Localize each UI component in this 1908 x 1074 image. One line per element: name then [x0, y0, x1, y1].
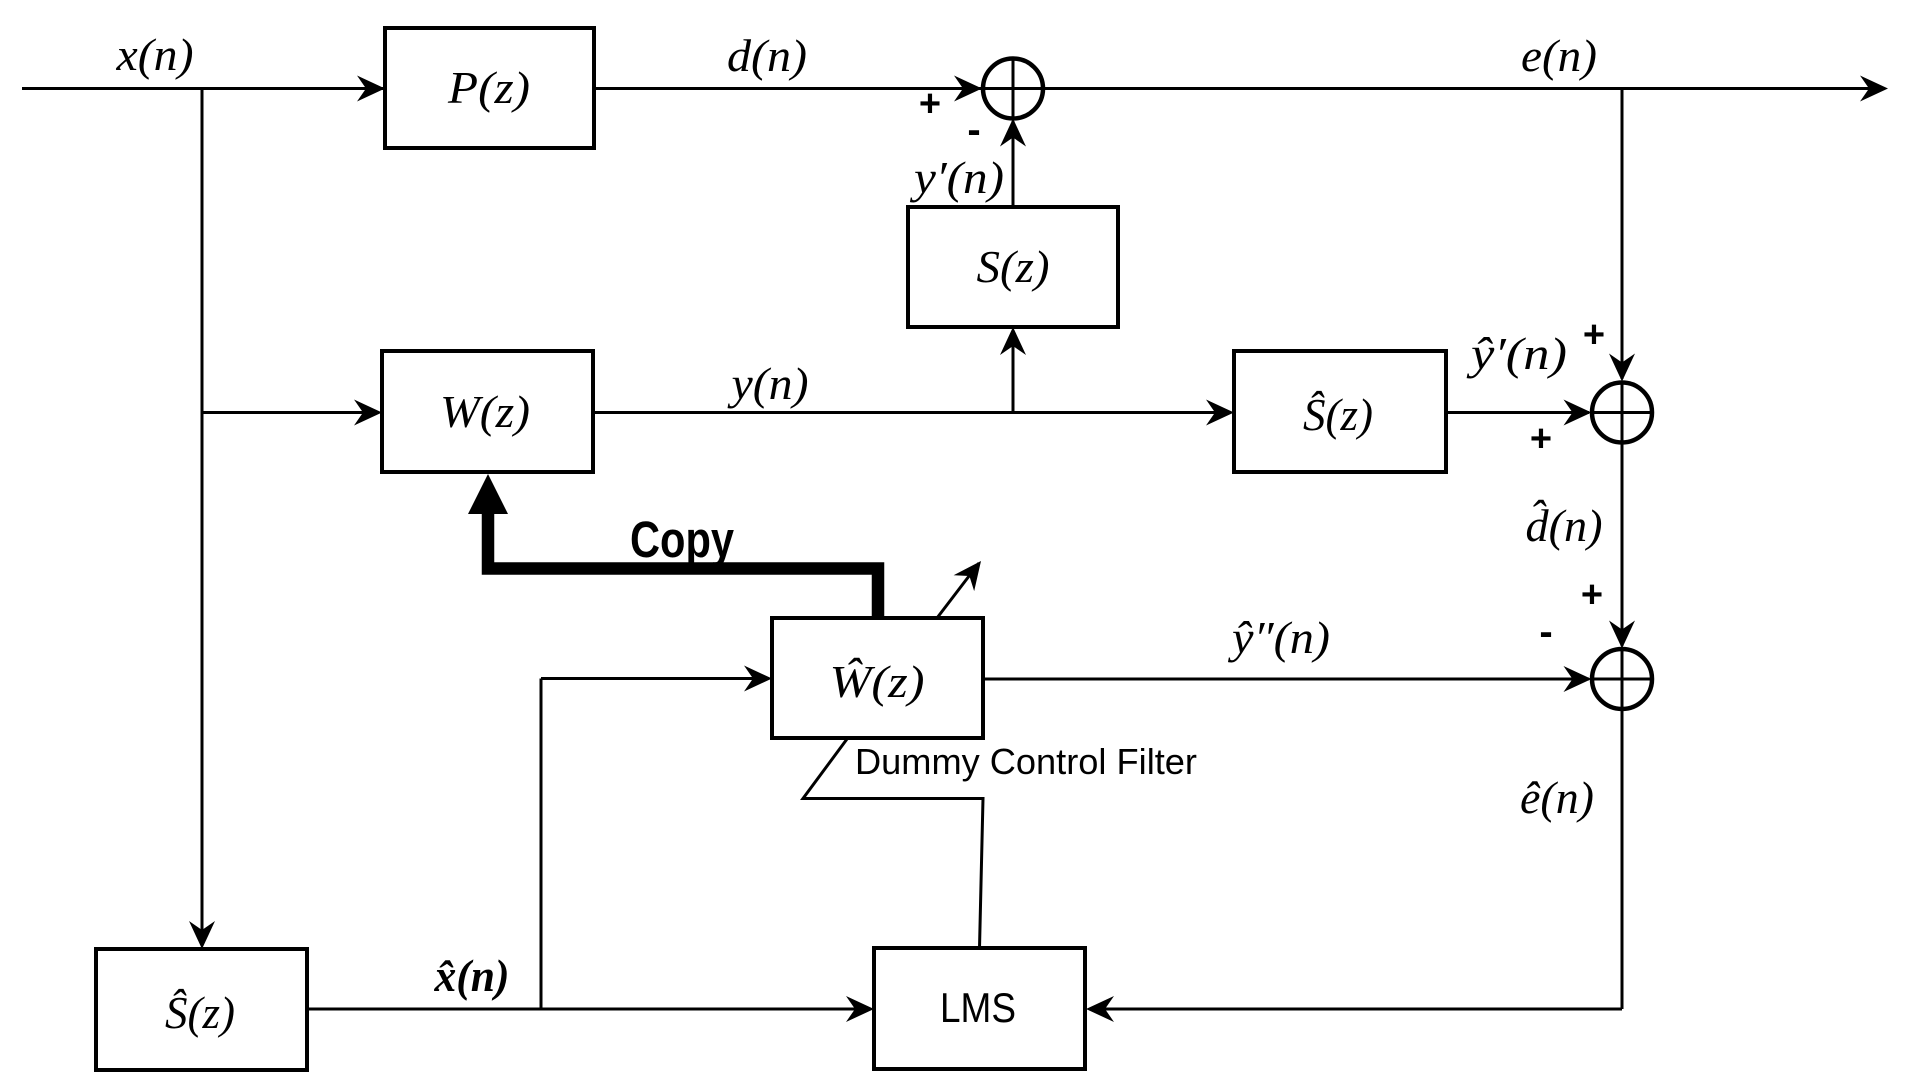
block Shat(z) bottom: [96, 949, 307, 1070]
wire feed up into S(z) from y(n): [1012, 330, 1015, 413]
wire e(n) branch down into J2: [1621, 89, 1624, 380]
block LMS: [874, 948, 1085, 1069]
block What(z): [772, 618, 983, 738]
wire x(n) main top line: [22, 87, 1884, 90]
svg-text:+: +: [919, 83, 941, 125]
arrow into P(z): [357, 76, 385, 102]
svg-text:Dummy Control Filter: Dummy Control Filter: [855, 741, 1197, 782]
svg-text:LMS: LMS: [940, 984, 1016, 1031]
summing junction J1: [983, 58, 1044, 119]
adaptive diagonal arrow on What(z): [937, 553, 991, 618]
svg-text:ê(n): ê(n): [1520, 772, 1594, 823]
block Shat(z) top: [1234, 351, 1446, 472]
svg-text:-: -: [967, 108, 980, 152]
wire Shat(z) output into J2: [1446, 411, 1589, 414]
svg-text:Ŝ(z): Ŝ(z): [165, 987, 235, 1038]
svg-text:Ŝ(z): Ŝ(z): [1303, 389, 1373, 440]
zigzag LMS update link to What(z): [803, 739, 983, 948]
block S(z): [908, 207, 1118, 327]
svg-text:W(z): W(z): [440, 386, 530, 437]
svg-text:x̂(n): x̂(n): [434, 950, 510, 1001]
svg-text:y(n): y(n): [727, 358, 808, 409]
wire J3 down and back into LMS: [1086, 710, 1622, 1023]
block W(z): [382, 351, 593, 472]
wire S(z) output up into J1: [1012, 121, 1015, 207]
svg-text:P(z): P(z): [447, 62, 530, 113]
arrow into node output right end: [1860, 76, 1888, 102]
svg-text:d̂(n): d̂(n): [1526, 500, 1603, 551]
svg-text:y′(n): y′(n): [910, 152, 1004, 203]
arrow into summing junction J1: [954, 76, 982, 102]
wire branch down from x(n) node: [201, 89, 204, 947]
wire xhat(n) from Shat(z) to LMS: [307, 1008, 871, 1011]
block P(z): [385, 28, 594, 148]
svg-text:d(n): d(n): [727, 30, 807, 81]
svg-text:-: -: [1539, 610, 1552, 654]
svg-text:+: +: [1583, 314, 1605, 356]
wire into W(z) from branch: [202, 411, 379, 414]
wire y(n) from W(z) to Shat(z): [593, 411, 1231, 414]
summing junction J3: [1592, 649, 1653, 710]
svg-text:+: +: [1530, 418, 1552, 460]
svg-text:e(n): e(n): [1521, 30, 1597, 81]
wire J2 down to J3: [1621, 443, 1624, 646]
svg-text:x(n): x(n): [115, 29, 193, 80]
thick copy arrow from What(z) to W(z): [468, 474, 878, 618]
svg-text:ŷ″(n): ŷ″(n): [1228, 612, 1330, 663]
wire What(z) output into J3: [983, 678, 1589, 681]
summing junction J2: [1592, 382, 1653, 443]
svg-text:Ŵ(z): Ŵ(z): [830, 656, 925, 707]
svg-text:+: +: [1581, 574, 1603, 616]
svg-text:S(z): S(z): [977, 241, 1050, 292]
wire input into What(z): [541, 666, 772, 1010]
svg-text:Copy: Copy: [630, 511, 735, 568]
svg-text:ŷ′(n): ŷ′(n): [1466, 328, 1567, 379]
